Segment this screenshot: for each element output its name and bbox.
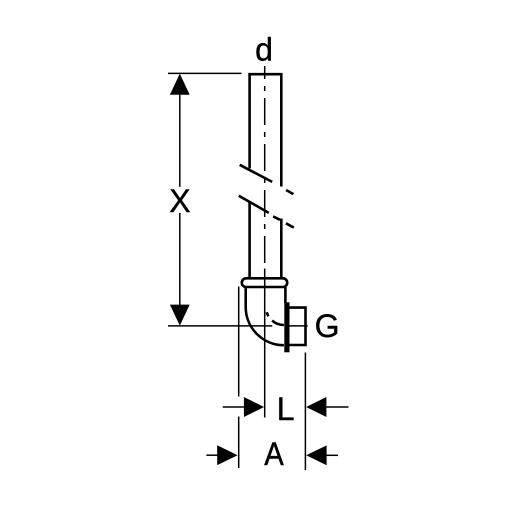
outlet centerline through male thread [289, 325, 308, 327]
dimension A left arrow [206, 454, 217, 456]
elbow outer arc [246, 307, 284, 345]
elbow inner arc highlight dash [267, 312, 269, 316]
socket collar [242, 278, 287, 287]
bottom reference line (outlet centerline) [168, 325, 272, 327]
centerline extension to L dimension [264, 269, 266, 418]
dimension X line upper segment [179, 94, 181, 187]
svg-text:L: L [277, 391, 295, 427]
male thread body G [289, 308, 306, 345]
thread flange [284, 302, 289, 352]
dimension X arrow up [170, 74, 190, 95]
break line 1 [240, 165, 294, 194]
pipe left wall lower [248, 202, 251, 279]
pipe top edge [248, 73, 282, 76]
dimension A right arrow [306, 445, 326, 465]
break line 2 [239, 196, 294, 228]
pipe right wall lower [280, 219, 283, 279]
dimension L right arrow [306, 397, 326, 417]
dimension L left arrow [223, 406, 245, 408]
right extension line (thread end) [304, 353, 306, 471]
svg-text:d: d [255, 31, 273, 67]
pipe centerline (dash-dot) [264, 66, 266, 263]
svg-text:A: A [264, 436, 284, 472]
elbow left wall [244, 287, 247, 308]
dimension X arrow down [170, 305, 190, 326]
svg-text:G: G [315, 308, 340, 344]
top reference line at pipe top [168, 72, 242, 74]
elbow inner arc [272, 321, 284, 325]
left extension line (elbow edge) [238, 287, 240, 469]
pipe right wall upper [280, 74, 283, 187]
elbow right wall [284, 287, 287, 304]
dimension X line lower segment [179, 213, 181, 306]
pipe left wall upper [248, 74, 251, 169]
